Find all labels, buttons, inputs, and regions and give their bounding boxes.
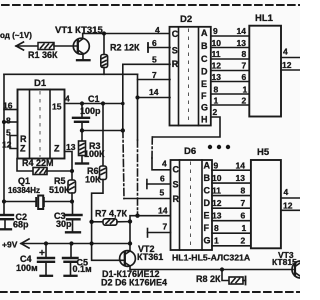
- svg-text:R1 36К: R1 36К: [28, 50, 58, 60]
- svg-text:10: 10: [212, 38, 222, 48]
- svg-text:1: 1: [242, 223, 247, 233]
- svg-text:A: A: [201, 28, 208, 38]
- svg-text:2: 2: [213, 107, 218, 117]
- svg-text:8: 8: [214, 84, 219, 94]
- svg-text:4: 4: [283, 47, 288, 57]
- svg-text:S: S: [173, 180, 179, 190]
- svg-text:7: 7: [242, 61, 247, 71]
- svg-text:13: 13: [237, 38, 247, 48]
- svg-text:C: C: [201, 54, 208, 64]
- svg-text:11: 11: [212, 186, 221, 196]
- svg-text:HL1-HL5-АЛС321А: HL1-HL5-АЛС321А: [172, 253, 251, 263]
- svg-text:8: 8: [242, 49, 247, 59]
- svg-text:11: 11: [212, 49, 221, 59]
- svg-text:5: 5: [160, 188, 165, 198]
- svg-text:Z: Z: [54, 144, 60, 154]
- svg-text:R: R: [172, 59, 179, 69]
- svg-text:4: 4: [284, 187, 289, 197]
- svg-text:13: 13: [236, 173, 246, 183]
- svg-text:R: R: [20, 134, 27, 144]
- svg-text:13: 13: [212, 211, 222, 221]
- svg-text:15: 15: [52, 102, 62, 112]
- svg-text:F: F: [204, 223, 210, 233]
- svg-text:4: 4: [162, 159, 167, 169]
- svg-text:H: H: [201, 115, 208, 125]
- svg-text:0.1м: 0.1м: [73, 264, 93, 274]
- svg-text:8: 8: [214, 223, 219, 233]
- svg-text:1: 1: [214, 236, 219, 246]
- svg-text:4: 4: [65, 94, 70, 104]
- svg-text:16: 16: [3, 101, 13, 111]
- svg-text:5: 5: [6, 128, 11, 138]
- svg-text:E: E: [201, 79, 207, 89]
- svg-text:13: 13: [212, 72, 222, 82]
- svg-text:B: B: [204, 173, 211, 183]
- svg-text:E: E: [204, 211, 210, 221]
- svg-text:14: 14: [158, 206, 168, 216]
- svg-text:S: S: [172, 46, 178, 56]
- svg-text:КТ361: КТ361: [137, 252, 163, 262]
- svg-text:7: 7: [241, 198, 246, 208]
- svg-text:6: 6: [242, 72, 247, 82]
- svg-text:HL1: HL1: [255, 13, 274, 24]
- svg-text:12: 12: [212, 198, 222, 208]
- svg-text:F: F: [201, 91, 207, 101]
- svg-text:R8 2К: R8 2К: [196, 274, 221, 284]
- svg-text:од (~1V): од (~1V): [0, 31, 32, 40]
- svg-text:B: B: [201, 41, 208, 51]
- svg-text:D2: D2: [180, 14, 192, 25]
- svg-text:6: 6: [152, 38, 157, 48]
- svg-text:5: 5: [152, 55, 157, 65]
- svg-text:8: 8: [6, 116, 11, 126]
- svg-text:G: G: [201, 103, 208, 113]
- svg-text:9: 9: [214, 161, 219, 171]
- svg-text:510К: 510К: [49, 185, 70, 195]
- svg-text:68p: 68p: [13, 220, 29, 230]
- svg-text:100К: 100К: [84, 149, 105, 159]
- svg-text:4: 4: [155, 25, 160, 35]
- svg-text:A: A: [204, 161, 211, 171]
- svg-text:D6: D6: [184, 146, 196, 157]
- svg-text:8: 8: [241, 186, 246, 196]
- svg-text:Q1: Q1: [18, 176, 30, 186]
- svg-text:100p: 100p: [80, 106, 101, 116]
- svg-text:C: C: [204, 186, 211, 196]
- svg-text:10: 10: [212, 173, 222, 183]
- svg-text:R4 22М: R4 22М: [22, 158, 54, 168]
- svg-text:13: 13: [66, 142, 76, 152]
- svg-text:10К: 10К: [85, 175, 101, 185]
- svg-text:D1: D1: [34, 78, 47, 89]
- svg-text:12: 12: [2, 140, 12, 150]
- svg-text:30p: 30p: [56, 219, 72, 229]
- svg-text:7: 7: [163, 222, 168, 232]
- svg-text:D2 D6 К176ИЕ4: D2 D6 К176ИЕ4: [101, 278, 167, 288]
- svg-text:14: 14: [149, 87, 159, 97]
- svg-text:6: 6: [241, 211, 246, 221]
- svg-text:КТ815: КТ815: [272, 257, 297, 267]
- svg-text:100м: 100м: [16, 263, 38, 273]
- svg-text:9: 9: [213, 26, 218, 36]
- svg-text:R2 12К: R2 12К: [110, 43, 140, 53]
- svg-text:6: 6: [160, 174, 165, 184]
- svg-text:12: 12: [282, 60, 292, 70]
- svg-text:Н5: Н5: [257, 147, 270, 158]
- svg-text:Z: Z: [20, 144, 26, 154]
- svg-text:16384Hz: 16384Hz: [8, 186, 40, 195]
- svg-text:12: 12: [283, 201, 293, 211]
- svg-text:14: 14: [237, 26, 247, 36]
- svg-text:G: G: [204, 236, 211, 246]
- svg-text:D: D: [204, 198, 211, 208]
- svg-text:R: R: [173, 194, 180, 204]
- svg-text:+9V: +9V: [2, 240, 18, 250]
- svg-text:VT1 КТ315: VT1 КТ315: [55, 25, 103, 36]
- svg-text:7: 7: [152, 70, 157, 80]
- svg-text:R7 4,7К: R7 4,7К: [95, 209, 128, 219]
- svg-text:2: 2: [242, 96, 247, 106]
- svg-text:1: 1: [243, 84, 248, 94]
- svg-text:D: D: [201, 67, 208, 77]
- svg-text:C1: C1: [88, 94, 100, 104]
- svg-text:C: C: [173, 165, 180, 175]
- svg-text:C: C: [172, 29, 179, 39]
- svg-text:2: 2: [241, 236, 246, 246]
- svg-text:1: 1: [214, 96, 219, 106]
- svg-text:14: 14: [236, 161, 246, 171]
- svg-text:12: 12: [212, 61, 222, 71]
